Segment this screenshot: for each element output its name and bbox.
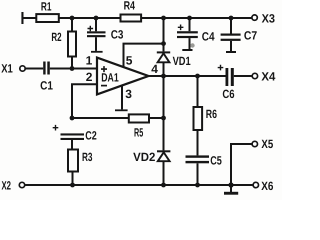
svg-text:X1: X1 — [1, 61, 13, 75]
svg-text:1: 1 — [86, 54, 93, 68]
svg-text:C7: C7 — [244, 28, 258, 42]
svg-text:C6: C6 — [222, 87, 234, 101]
scan artifact speckle — [190, 43, 194, 47]
diode VD1 cathode bar — [157, 51, 170, 53]
diode VD2 triangle — [158, 152, 170, 161]
capacitor C2 plates — [61, 133, 85, 140]
capacitor C7 end stub bar — [226, 51, 236, 53]
svg-text:VD2: VD2 — [133, 150, 156, 164]
wire C6 to X4 — [234, 75, 252, 77]
svg-text:4: 4 — [151, 62, 158, 76]
diode VD1 triangle — [158, 53, 170, 62]
node junction R5/VD2 rail — [161, 116, 166, 121]
svg-text:C1: C1 — [40, 78, 53, 92]
svg-text:C5: C5 — [210, 153, 222, 167]
node junction C3/top rail — [94, 16, 99, 21]
pin 3 end stub bar — [115, 109, 128, 111]
wire op-amp output to X4 line — [149, 75, 226, 77]
svg-text:VD1: VD1 — [173, 54, 191, 68]
resistor R2 — [68, 32, 76, 57]
node junction C4/top rail — [187, 16, 192, 21]
capacitor C3 lead from rail — [95, 18, 97, 31]
wire pin 3 down — [121, 85, 123, 109]
wire stub to R1 — [24, 17, 37, 19]
svg-text:DA1: DA1 — [101, 71, 119, 85]
capacitor C1 plates — [43, 62, 50, 75]
wire R6 upper lead — [197, 76, 199, 107]
capacitor C7 lead from rail — [230, 18, 232, 34]
node junction C5/bottom rail — [195, 183, 200, 188]
terminal X2 — [19, 182, 24, 187]
wire C5 to bottom rail — [197, 163, 199, 185]
node junction R2/top rail — [70, 16, 75, 21]
capacitor C7 bottom lead — [230, 41, 232, 51]
svg-text:C4: C4 — [202, 29, 215, 43]
wire R6 to C5 — [197, 130, 199, 155]
wire R2 upper lead — [71, 18, 73, 32]
capacitor C6 plates — [226, 68, 234, 86]
terminal X5 — [252, 141, 257, 146]
capacitor C3 bottom lead — [95, 37, 97, 51]
diode VD2 cathode bar — [157, 150, 170, 152]
wire op-amp pin 2 feedback — [72, 84, 97, 118]
svg-text:X2: X2 — [2, 179, 12, 193]
wire R3 to bottom rail — [72, 172, 74, 186]
ground bar — [224, 192, 238, 195]
terminal X4 — [252, 73, 257, 78]
node junction C7/top rail — [229, 16, 234, 21]
capacitor C7 plates — [221, 34, 241, 41]
resistor R5 — [129, 114, 149, 122]
wire R1 to R4 top rail — [59, 17, 121, 19]
wire X5 branch — [231, 144, 252, 185]
op-amp plus input mark — [101, 66, 107, 72]
svg-text:R4: R4 — [124, 0, 136, 12]
terminal X1 — [20, 66, 25, 71]
wire pin 5 up and right — [124, 44, 164, 68]
ground stub — [230, 185, 232, 192]
svg-text:X6: X6 — [261, 179, 273, 193]
wire VD1 rail upper — [163, 18, 165, 51]
svg-text:2: 2 — [86, 70, 93, 84]
wire VD1 node down to R5 node — [163, 76, 165, 150]
wire R4 to X3 — [141, 17, 252, 19]
wire R2 lower lead — [71, 57, 73, 69]
svg-text:R2: R2 — [51, 30, 61, 44]
node junction VD1 rail/top rail — [161, 16, 166, 21]
node junction ground/X5 branch — [228, 182, 233, 187]
svg-text:X3: X3 — [262, 11, 276, 25]
capacitor C4 plus sign — [178, 25, 184, 31]
resistor R4 — [121, 15, 142, 22]
capacitor C6 plus sign — [218, 65, 224, 71]
svg-text:X5: X5 — [261, 137, 273, 151]
wire X1 to C1 — [25, 68, 43, 70]
capacitor C4 lead from rail — [189, 18, 191, 31]
svg-text:R3: R3 — [82, 150, 93, 164]
terminal X6 — [253, 182, 258, 187]
terminal stub top-left — [21, 12, 23, 24]
wire R5 row left segment — [72, 117, 129, 119]
wire R5 to VD2 rail — [149, 117, 164, 119]
svg-text:5: 5 — [126, 54, 133, 68]
capacitor C2 plus sign — [53, 125, 59, 131]
capacitor C3 end stub bar — [91, 51, 103, 53]
svg-text:3: 3 — [125, 87, 132, 101]
capacitor C3 plus sign — [88, 26, 94, 32]
svg-text:C3: C3 — [111, 28, 124, 42]
resistor R6 — [194, 107, 203, 130]
svg-text:R6: R6 — [206, 107, 217, 121]
wire VD1 to output node — [163, 62, 165, 76]
wire C2 to R3 — [71, 140, 73, 150]
capacitor C3 plates — [87, 31, 106, 37]
node junction VD2/bottom rail — [161, 183, 166, 188]
wire bottom rail — [25, 184, 253, 186]
node junction pin5/VD1 rail — [161, 41, 166, 46]
resistor R1 — [36, 14, 59, 22]
wire C1 to op-amp pin 1 — [50, 68, 97, 70]
node junction R6/output line — [195, 74, 200, 79]
resistor R3 — [68, 150, 78, 172]
node junction C2/R5 — [70, 116, 75, 121]
node junction R3/bottom rail — [70, 183, 75, 188]
capacitor C5 plates — [186, 155, 210, 163]
svg-text:X4: X4 — [261, 70, 275, 84]
op-amp minus input mark — [101, 85, 107, 87]
svg-text:R5: R5 — [134, 126, 143, 140]
node junction C1/R2/pin1 — [70, 66, 75, 71]
node junction output/VD1 — [161, 74, 166, 79]
capacitor C4 bottom lead — [189, 38, 191, 49]
wire VD2 to bottom rail — [163, 161, 165, 185]
capacitor C4 plates — [177, 31, 198, 38]
svg-text:R1: R1 — [41, 0, 52, 13]
capacitor C4 end stub bar — [182, 49, 192, 51]
svg-text:C2: C2 — [85, 129, 97, 143]
terminal X3 — [252, 15, 257, 20]
op-amp U1 DA1 triangle — [97, 58, 149, 95]
